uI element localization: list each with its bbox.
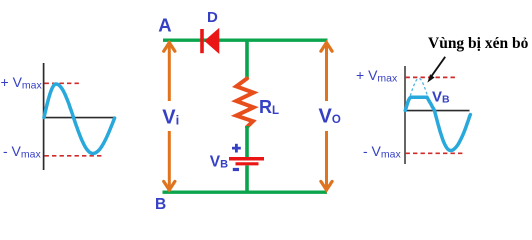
left -Vmax dashed level <box>45 155 105 157</box>
right waveform x-axis <box>405 110 470 112</box>
left waveform y-axis <box>43 63 45 170</box>
VO arrow upper shaft <box>325 43 328 101</box>
wire battery to bottom <box>245 166 249 194</box>
right waveform y-axis <box>404 66 406 164</box>
battery VB top plate <box>229 157 264 161</box>
Vi arrow up head <box>164 43 175 52</box>
annotation arrow head <box>427 74 434 82</box>
svg-text:VO: VO <box>319 106 341 128</box>
left +Vmax dashed level <box>45 82 81 84</box>
Vi arrow lower shaft <box>168 131 171 190</box>
svg-text:+ Vmax: + Vmax <box>356 67 398 85</box>
resistor RL zigzag <box>236 79 253 128</box>
VO arrow up head <box>321 43 332 52</box>
annotation arrow shaft <box>431 57 445 77</box>
svg-text:Vùng bị xén bỏ: Vùng bị xén bỏ <box>428 35 529 52</box>
left input sine wave <box>44 84 115 154</box>
Vi arrow down head <box>164 181 175 190</box>
right +Vmax dashed level <box>406 76 458 78</box>
VO arrow down head <box>321 181 332 190</box>
right -Vmax dashed level <box>406 152 465 154</box>
diode D cathode bar <box>200 29 204 53</box>
battery VB bottom plate <box>236 162 259 165</box>
svg-text:RL: RL <box>259 97 279 117</box>
right output clipped wave <box>405 97 470 150</box>
Vi arrow upper shaft <box>168 43 171 101</box>
battery + polarity <box>232 147 241 150</box>
svg-text:- Vmax: - Vmax <box>3 143 41 161</box>
svg-text:Vi: Vi <box>162 107 179 129</box>
bottom wire <box>163 190 328 193</box>
clipped peak dashed arc <box>410 79 427 96</box>
top wire <box>163 39 328 42</box>
wire resistor branch top <box>245 41 249 80</box>
wire resistor to battery <box>245 126 249 157</box>
svg-text:D: D <box>207 9 218 26</box>
svg-text:B: B <box>155 196 166 213</box>
VO arrow lower shaft <box>325 131 328 190</box>
diode D triangle <box>204 28 219 54</box>
svg-text:- Vmax: - Vmax <box>363 143 401 161</box>
battery - polarity <box>233 168 239 171</box>
svg-text:VB: VB <box>432 88 450 105</box>
svg-text:A: A <box>158 15 171 36</box>
svg-text:VB: VB <box>210 154 228 171</box>
left waveform x-axis <box>43 117 115 119</box>
svg-text:+ Vmax: + Vmax <box>1 74 43 92</box>
